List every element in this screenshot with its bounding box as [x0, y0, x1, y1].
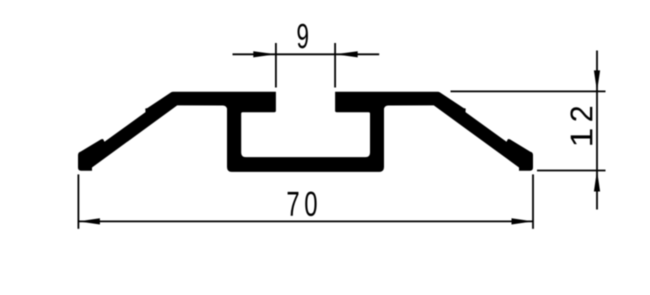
- extension line right of dimension 70 (below right foot): [532, 174, 534, 228]
- dimension value text 9: [298, 24, 308, 49]
- dimension value text 12 (rotated): [570, 107, 592, 145]
- arrowhead left of dimension 9 (pointing right at extension line): [253, 51, 275, 57]
- extension line left of dimension 70 (below left foot): [77, 174, 79, 228]
- arrowhead right of dimension 9 (pointing left at extension line): [335, 51, 358, 57]
- profile cross-section (solid black aluminium threshold profile body): [78, 92, 533, 172]
- dimension line of dimension 12 (vertical): [596, 51, 598, 210]
- dimension line of dimension 70: [78, 220, 533, 222]
- extension line right of dimension 9 (slot right edge): [334, 43, 336, 88]
- extension line left of dimension 9 (slot left edge): [275, 43, 277, 88]
- dimension value text 70: [288, 191, 317, 216]
- arrowhead top of dimension 12 (pointing down): [594, 70, 600, 91]
- extension line bottom of dimension 12 (profile bottom level): [537, 170, 606, 172]
- arrowhead right of dimension 70 (pointing right): [512, 218, 533, 224]
- dimension line of dimension 9 (continuous with outside tails): [233, 53, 380, 55]
- arrowhead left of dimension 70 (pointing left): [79, 218, 100, 224]
- arrowhead bottom of dimension 12 (pointing up): [594, 170, 600, 191]
- extension line top of dimension 12 (profile top surface level): [451, 90, 606, 92]
